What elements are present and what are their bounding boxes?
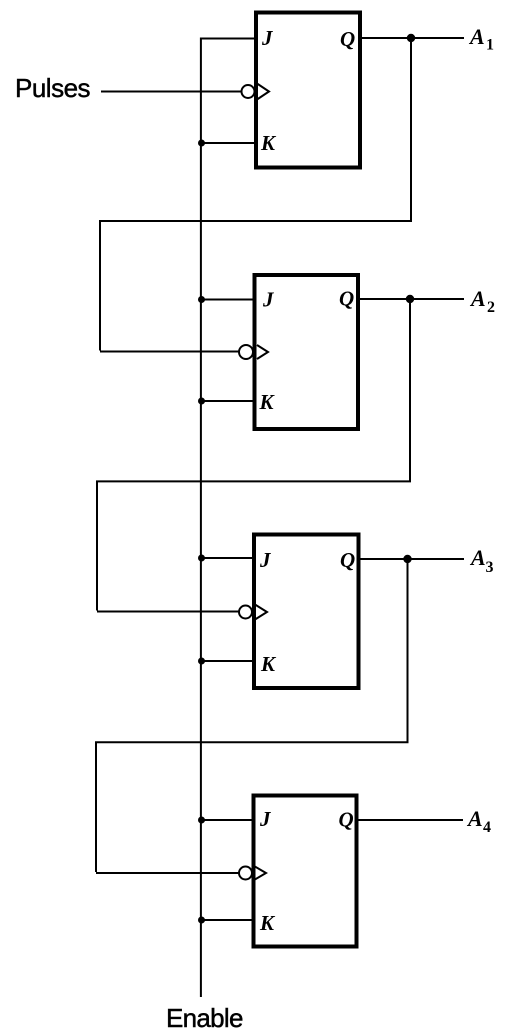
svg-text:K: K xyxy=(260,131,277,155)
wire J3 stub xyxy=(201,557,254,559)
svg-text:Q: Q xyxy=(340,27,355,51)
wire feedback Q2 to CLK3 xyxy=(97,299,410,612)
svg-text:4: 4 xyxy=(483,819,491,836)
wire K3 stub xyxy=(201,660,254,662)
junction K4 on Enable bus xyxy=(198,917,205,924)
wire K4 stub xyxy=(201,919,253,921)
svg-text:Q: Q xyxy=(339,808,354,832)
flip-flop U3 box xyxy=(254,535,359,689)
svg-text:J: J xyxy=(262,288,275,312)
svg-text:J: J xyxy=(259,548,272,572)
flip-flop U1 box xyxy=(256,13,360,168)
svg-text:A: A xyxy=(466,806,483,831)
junction K1 on Enable bus xyxy=(198,140,205,147)
svg-text:K: K xyxy=(259,390,276,414)
wire J1 input bend xyxy=(201,38,257,40)
svg-text:Q: Q xyxy=(340,548,355,572)
flip-flop U4 box xyxy=(254,796,357,947)
junction J2 on Enable bus xyxy=(198,296,205,303)
flip-flop U4 clock bubble xyxy=(239,867,252,880)
wire feedback Q1 to CLK2 xyxy=(100,38,411,352)
junction J4 on Enable bus xyxy=(198,817,205,824)
flip-flop U1 clock triangle xyxy=(257,84,269,100)
wire Q2 output to A2 xyxy=(358,298,464,300)
svg-text:J: J xyxy=(259,807,272,831)
svg-text:Enable: Enable xyxy=(166,1003,243,1033)
wire Q3 output to A3 xyxy=(357,558,464,560)
junction Q2 output node xyxy=(406,295,414,303)
svg-text:Pulses: Pulses xyxy=(15,73,91,103)
svg-text:2: 2 xyxy=(487,299,495,316)
svg-text:A: A xyxy=(469,286,486,311)
junction Q1 output node xyxy=(407,34,415,42)
svg-text:1: 1 xyxy=(486,37,494,54)
svg-text:J: J xyxy=(261,26,274,50)
svg-text:A: A xyxy=(468,24,485,49)
junction K2 on Enable bus xyxy=(198,398,205,405)
svg-text:Q: Q xyxy=(339,287,354,311)
svg-text:3: 3 xyxy=(486,559,494,576)
flip-flop U3 clock triangle xyxy=(255,605,267,620)
junction J3 on Enable bus xyxy=(198,555,205,562)
wire Enable vertical bus xyxy=(200,38,202,998)
svg-text:A: A xyxy=(469,545,486,570)
flip-flop U2 clock triangle xyxy=(257,345,268,359)
wire J4 stub xyxy=(201,819,253,821)
wire feedback Q3 to CLK4 xyxy=(96,559,408,873)
junction K3 on Enable bus xyxy=(198,658,205,665)
junction Q3 output node xyxy=(403,555,411,563)
wire Q4 output to A4 xyxy=(357,819,464,821)
flip-flop U3 clock bubble xyxy=(239,606,252,619)
wire K1 stub xyxy=(201,142,256,144)
svg-text:K: K xyxy=(260,652,277,676)
wire Q1 output to A1 xyxy=(360,37,464,39)
flip-flop U2 box xyxy=(255,275,359,429)
svg-text:K: K xyxy=(259,911,276,935)
flip-flop U1 clock bubble xyxy=(242,85,255,98)
wire K2 stub xyxy=(201,400,255,402)
flip-flop U4 clock triangle xyxy=(254,866,266,880)
wire J2 stub xyxy=(201,299,255,301)
wire Pulses to clock FF1 xyxy=(101,91,243,93)
flip-flop U2 clock bubble xyxy=(239,345,253,359)
